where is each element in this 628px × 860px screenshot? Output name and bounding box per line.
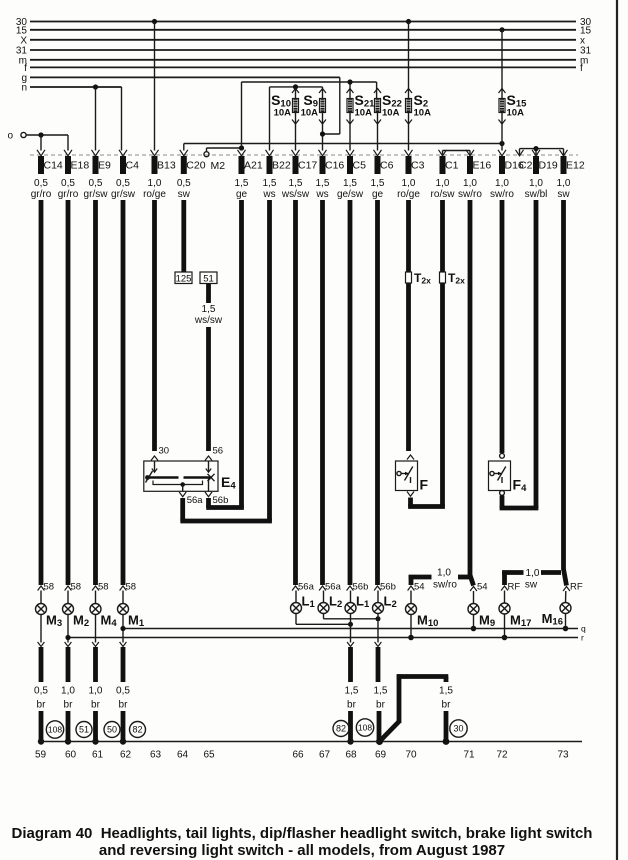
svg-text:1,5: 1,5 — [343, 178, 357, 189]
connector C4 — [111, 150, 139, 200]
svg-text:56b: 56b — [353, 582, 369, 593]
svg-text:C5: C5 — [353, 160, 367, 172]
svg-text:sw/ro: sw/ro — [490, 189, 514, 200]
svg-text:gr/ro: gr/ro — [58, 189, 79, 200]
svg-text:72: 72 — [496, 750, 508, 761]
svg-text:64: 64 — [177, 750, 189, 761]
connector D16 — [490, 150, 524, 200]
junction dot at S21 top — [347, 79, 352, 84]
bus line X — [20, 35, 585, 46]
svg-text:1,0: 1,0 — [526, 568, 540, 579]
svg-text:50: 50 — [107, 725, 117, 735]
ground point 30 (track 70) — [450, 720, 467, 737]
connector C21 — [516, 150, 539, 172]
wire C4 riser from bus n — [121, 87, 123, 151]
svg-text:C6: C6 — [380, 160, 394, 172]
svg-text:65: 65 — [203, 750, 215, 761]
wire E16 branch to M10/M9 (1,0 sw/ro) — [409, 568, 474, 591]
F bottom wire to C1 wire — [407, 492, 414, 507]
svg-text:1,0: 1,0 — [89, 686, 103, 697]
junction dot at D16/S15 — [499, 141, 504, 146]
fuse S2 10A — [405, 89, 431, 125]
svg-text:58: 58 — [44, 582, 55, 593]
svg-text:r: r — [581, 633, 584, 643]
wire E12 to M17/M16 (sw) — [561, 200, 566, 570]
svg-text:E12: E12 — [566, 160, 585, 172]
connector C17 — [281, 150, 318, 200]
svg-text:51: 51 — [79, 725, 89, 735]
wire C20 to box 125 (sw) — [181, 200, 186, 273]
svg-text:108: 108 — [358, 723, 372, 733]
wire C5 to L1 right (ge/sw) — [348, 200, 353, 585]
svg-text:56a: 56a — [187, 495, 204, 506]
connector C1 — [431, 150, 459, 200]
svg-text:D19: D19 — [539, 160, 558, 172]
wire L1 pair join — [296, 614, 353, 627]
connector C20 — [177, 150, 206, 200]
svg-text:10A: 10A — [382, 108, 400, 119]
svg-text:br: br — [442, 700, 452, 711]
wire C14 riser from o-line — [40, 135, 42, 151]
ground wire M2 (1,0 br) — [61, 642, 75, 745]
wire E9 to M4 (gr/sw) — [93, 200, 98, 585]
svg-text:108: 108 — [48, 725, 62, 735]
lamp M9 brake light (54) — [468, 582, 495, 632]
junction dot M2 line on A21 wire — [239, 145, 244, 150]
svg-text:1,5: 1,5 — [202, 304, 216, 315]
ground point 82 (track 62) — [130, 722, 146, 738]
ground bridge 69 to point 30 — [380, 674, 453, 745]
lamp M16 reversing light (RF) — [542, 582, 583, 632]
bus line r — [65, 633, 584, 643]
svg-text:C14: C14 — [44, 160, 63, 172]
svg-text:1,0: 1,0 — [148, 178, 162, 189]
connector C14 — [31, 150, 63, 200]
wire L2 pair join — [324, 614, 381, 622]
svg-text:br: br — [37, 700, 47, 711]
wire C20 to long feed line — [183, 144, 185, 151]
svg-text:1,0: 1,0 — [437, 568, 451, 579]
svg-text:10A: 10A — [301, 108, 319, 119]
svg-text:C4: C4 — [126, 160, 140, 172]
lamp M1 tail light — [118, 582, 145, 643]
svg-text:0,5: 0,5 — [116, 686, 130, 697]
svg-text:1,5: 1,5 — [374, 686, 388, 697]
connector C5 — [337, 150, 366, 200]
wire S2 riser from bus 30 — [406, 19, 411, 151]
svg-text:sw/bl: sw/bl — [525, 189, 548, 200]
connector E18 — [58, 150, 90, 200]
wire S10 bottom to C17 — [295, 113, 297, 151]
svg-text:71: 71 — [463, 750, 475, 761]
svg-text:1,0: 1,0 — [436, 178, 450, 189]
connector E9 — [84, 150, 111, 200]
svg-text:C1: C1 — [445, 160, 459, 172]
svg-text:10A: 10A — [274, 108, 292, 119]
svg-text:30: 30 — [159, 446, 170, 457]
svg-text:ro/sw: ro/sw — [431, 189, 456, 200]
wire D19 to F4 bottom (sw/bl) — [500, 200, 539, 508]
svg-text:58: 58 — [126, 582, 137, 593]
svg-text:125: 125 — [176, 273, 192, 284]
svg-text:1,0: 1,0 — [463, 178, 477, 189]
svg-text:1,5: 1,5 — [289, 178, 303, 189]
E4 pin 56b — [205, 492, 244, 508]
wire E12 branch to M17/M16 (1,0 sw) — [502, 568, 566, 591]
ground point 50 (track 61) — [104, 722, 120, 738]
wire S15 riser from bus 15 — [499, 27, 504, 150]
wire A21 to E4 56b (ge) — [239, 200, 244, 508]
wire C14 to M3 (gr/ro) — [39, 200, 44, 585]
junction dot on o-line at C14 — [38, 132, 43, 137]
svg-text:1,5: 1,5 — [235, 178, 249, 189]
svg-text:0,5: 0,5 — [34, 178, 48, 189]
junction dot at S10 top — [293, 84, 298, 89]
svg-text:RF: RF — [508, 582, 521, 593]
svg-text:10A: 10A — [355, 108, 373, 119]
svg-text:gr/sw: gr/sw — [84, 189, 109, 200]
wire B22 riser to S10/S9 tops — [270, 87, 323, 151]
wire A21 riser to S21/S22 tops — [242, 82, 377, 151]
svg-text:56: 56 — [213, 446, 224, 457]
ground wire L1 pair (1,5 br) — [345, 614, 359, 745]
svg-text:0,5: 0,5 — [34, 686, 48, 697]
E4 contact bars — [145, 471, 214, 491]
E4 pin 30 — [151, 446, 169, 473]
svg-text:1,5: 1,5 — [371, 178, 385, 189]
caption — [12, 825, 593, 859]
svg-text:E9: E9 — [98, 160, 111, 172]
ground point 108 (track 59) — [46, 721, 63, 738]
ground wire M1 (0,5 br) — [116, 642, 130, 745]
ground wire M3 (0,5 br) — [34, 642, 48, 745]
long feed line C20 to D16/S15 — [184, 143, 502, 145]
connector C3 — [397, 150, 424, 200]
svg-text:ge/sw: ge/sw — [337, 189, 364, 200]
svg-text:B22: B22 — [272, 160, 291, 172]
svg-text:RF: RF — [570, 582, 583, 593]
wire C4 to M1 (gr/sw) — [121, 200, 126, 585]
svg-text:sw/ro: sw/ro — [458, 189, 482, 200]
svg-text:br: br — [119, 700, 129, 711]
ground wire M4 (1,0 br) — [89, 642, 103, 745]
svg-text:1,0: 1,0 — [61, 686, 75, 697]
svg-text:56a: 56a — [298, 582, 315, 593]
lamp M4 tail light — [90, 582, 117, 643]
svg-text:C3: C3 — [411, 160, 425, 172]
node M2 (bullet connector) — [204, 148, 242, 172]
svg-text:0,5: 0,5 — [89, 178, 103, 189]
switch F brake light switch — [396, 455, 429, 493]
junction dot C16/bus g/S9 — [320, 131, 325, 136]
svg-text:E16: E16 — [473, 160, 492, 172]
svg-text:Diagram 40 Headlights, tail l: Diagram 40 Headlights, tail lights, dip/… — [12, 825, 593, 842]
svg-text:69: 69 — [375, 750, 387, 761]
ground point 108 (track 69) — [356, 719, 373, 736]
wire S9 bottom to C16 node — [322, 113, 324, 151]
svg-text:1,5: 1,5 — [345, 686, 359, 697]
E4 pin 56a — [179, 492, 272, 521]
wire S21 bottom to C5 — [349, 113, 351, 151]
bus line m — [19, 55, 589, 66]
svg-text:M2: M2 — [211, 160, 226, 172]
E4 pin 56 — [205, 446, 223, 473]
page border right — [616, 0, 618, 860]
svg-text:gr/sw: gr/sw — [111, 189, 136, 200]
bus line g (turns down to C16 node) — [21, 73, 339, 134]
track numbers 59-73 — [35, 750, 569, 761]
fuse S15 10A — [499, 89, 528, 125]
svg-text:60: 60 — [65, 750, 77, 761]
svg-text:F: F — [420, 477, 429, 493]
bus line 30 — [16, 17, 592, 28]
ground point 51 (track 60) — [76, 722, 92, 738]
svg-text:br: br — [376, 700, 386, 711]
wire C17 to L1 left (ws/sw) — [293, 200, 298, 585]
track reference box 125 (end of C20 wire) — [175, 272, 192, 284]
junction dot D19 on bridge — [533, 146, 538, 151]
op switch E4 dip/flasher headlight switch — [144, 461, 237, 492]
svg-text:C16: C16 — [325, 160, 344, 172]
svg-text:56b: 56b — [213, 495, 229, 506]
svg-text:sw: sw — [525, 580, 538, 591]
wire D16 to F4 top (sw/ro) — [500, 200, 505, 453]
connector E12 — [557, 150, 585, 200]
svg-text:B13: B13 — [157, 160, 176, 172]
connector rail (dashed) — [30, 154, 578, 156]
svg-text:C20: C20 — [186, 160, 205, 172]
svg-text:1,5: 1,5 — [263, 178, 277, 189]
connector A21 — [235, 150, 263, 200]
wire box51 to E4 terminal 56 (1,5 ws/sw) — [194, 284, 223, 452]
bridge wire C21/D19/E12 — [520, 149, 564, 155]
svg-text:1,5: 1,5 — [316, 178, 330, 189]
connector C16 — [315, 150, 344, 200]
lamp L2 (56a) headlight — [318, 582, 342, 614]
wire C16 to L2 left (ws) — [320, 200, 325, 585]
svg-text:A21: A21 — [244, 160, 263, 172]
fuse S21 10A — [347, 89, 376, 125]
connector C6 — [371, 150, 394, 200]
svg-text:and reversing light switch - a: and reversing light switch - all models,… — [99, 842, 505, 859]
bus line 15 — [16, 25, 592, 36]
svg-text:ws: ws — [315, 189, 328, 200]
svg-text:51: 51 — [203, 273, 214, 284]
svg-text:82: 82 — [336, 724, 346, 734]
svg-text:58: 58 — [98, 582, 109, 593]
inline connector T2x on C1 wire — [440, 271, 466, 286]
svg-text:54: 54 — [414, 582, 425, 593]
bus line f — [24, 63, 583, 74]
inline connector T2x on C3 wire — [406, 271, 432, 286]
svg-text:ws: ws — [262, 189, 275, 200]
svg-text:68: 68 — [345, 750, 357, 761]
svg-text:n: n — [21, 83, 27, 94]
switch F4 reversing light switch — [489, 453, 528, 494]
connector B13 — [143, 150, 176, 200]
connector E16 — [458, 150, 491, 200]
svg-text:63: 63 — [150, 750, 162, 761]
bus line q — [120, 624, 586, 634]
svg-text:gr/ro: gr/ro — [31, 189, 52, 200]
wire E18 riser from o-line — [67, 135, 69, 151]
F4 bottom wire to D19 wire — [500, 491, 505, 509]
wire C3 to F top (ro/ge) — [406, 200, 411, 451]
svg-text:1,0: 1,0 — [402, 178, 416, 189]
svg-text:sw: sw — [178, 189, 191, 200]
svg-text:1,5: 1,5 — [439, 686, 453, 697]
bus line n — [21, 83, 121, 94]
junction dot on n at E9 — [93, 84, 98, 89]
svg-text:56b: 56b — [380, 582, 396, 593]
svg-text:67: 67 — [319, 750, 331, 761]
svg-text:C17: C17 — [298, 160, 317, 172]
svg-text:10A: 10A — [507, 108, 525, 119]
ground point 82 (track 68) — [333, 721, 349, 737]
wire E18 to M2 (gr/ro) — [66, 200, 71, 585]
lamp M3 tail light — [36, 582, 63, 643]
svg-text:ge: ge — [372, 189, 384, 200]
svg-text:ws/sw: ws/sw — [194, 315, 223, 326]
svg-text:56a: 56a — [325, 582, 342, 593]
svg-text:0,5: 0,5 — [116, 178, 130, 189]
ground wire L2 pair (1,5 br) — [374, 614, 388, 746]
svg-text:66: 66 — [292, 750, 304, 761]
fuse S10 10A — [271, 89, 299, 125]
svg-text:30: 30 — [453, 724, 463, 734]
lamp M17 reversing light (RF) — [499, 582, 531, 641]
svg-text:1,0: 1,0 — [529, 178, 543, 189]
svg-text:br: br — [91, 700, 101, 711]
lamp L1 (56b) headlight — [345, 582, 370, 614]
wire C1 to F bottom (ro/sw) — [408, 200, 445, 507]
svg-text:0,5: 0,5 — [177, 178, 191, 189]
lamp L2 (56b) headlight — [373, 582, 397, 614]
svg-text:54: 54 — [477, 582, 488, 593]
track reference box 51 (source of ws/sw wire) — [200, 272, 217, 284]
ground bus — [38, 741, 582, 743]
svg-text:ro/ge: ro/ge — [397, 189, 420, 200]
svg-text:ge: ge — [236, 189, 248, 200]
wire C6 to L2 right (ge) — [375, 200, 380, 585]
svg-text:61: 61 — [92, 750, 104, 761]
svg-text:sw/ro: sw/ro — [433, 580, 457, 591]
svg-text:ws/sw: ws/sw — [281, 189, 310, 200]
bus line 31 — [16, 46, 592, 57]
connector D19 — [525, 150, 558, 200]
wire E16 to M10/M9 (sw/ro) — [468, 200, 473, 577]
lamp M10 brake light (54) — [406, 582, 439, 641]
lamp M2 tail light — [63, 582, 90, 643]
svg-text:1,0: 1,0 — [495, 178, 509, 189]
wire B13 riser from bus 30 — [152, 19, 157, 151]
connector B22 — [262, 150, 290, 200]
svg-text:br: br — [64, 700, 74, 711]
svg-text:o: o — [7, 131, 13, 142]
svg-text:59: 59 — [35, 750, 47, 761]
svg-text:10A: 10A — [414, 108, 432, 119]
svg-text:br: br — [347, 700, 357, 711]
wire E9 riser from bus n — [95, 87, 97, 151]
svg-text:1,0: 1,0 — [557, 178, 571, 189]
wire S22 bottom to C6 — [377, 113, 379, 151]
svg-text:f: f — [580, 63, 583, 74]
fuse S9 10A — [301, 89, 326, 125]
node o feed line — [7, 131, 68, 142]
svg-text:62: 62 — [120, 750, 132, 761]
bridge wire C1 to E16 — [443, 151, 471, 156]
wire B13 to E4 terminal 30 (ro/ge) — [152, 200, 157, 451]
svg-text:70: 70 — [405, 750, 417, 761]
lamp L1 (56a) headlight — [291, 582, 316, 614]
fuse S22 10A — [374, 89, 402, 125]
wire B22 to E4 56a (ws) — [267, 200, 272, 521]
svg-text:sw: sw — [557, 189, 570, 200]
svg-text:58: 58 — [71, 582, 82, 593]
svg-text:E18: E18 — [71, 160, 90, 172]
svg-text:82: 82 — [132, 725, 142, 735]
svg-text:0,5: 0,5 — [61, 178, 75, 189]
svg-text:73: 73 — [557, 750, 569, 761]
svg-text:ro/ge: ro/ge — [143, 189, 166, 200]
